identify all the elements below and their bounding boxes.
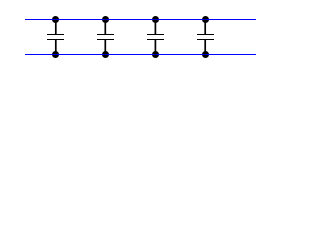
node junction bottom of C4 bbox=[202, 51, 209, 58]
node junction top of C4 bbox=[202, 16, 209, 23]
node junction bottom of C3 bbox=[152, 51, 159, 58]
wire top rail bbox=[25, 19, 256, 21]
capacitor C2 bbox=[97, 20, 114, 55]
node junction top of C3 bbox=[152, 16, 159, 23]
node junction top of C2 bbox=[102, 16, 109, 23]
node junction bottom of C2 bbox=[102, 51, 109, 58]
wire bottom rail bbox=[25, 54, 256, 56]
capacitor C1 bbox=[47, 20, 64, 55]
capacitor C4 bbox=[197, 20, 214, 55]
node junction top of C1 bbox=[52, 16, 59, 23]
capacitor C3 bbox=[147, 20, 164, 55]
node junction bottom of C1 bbox=[52, 51, 59, 58]
